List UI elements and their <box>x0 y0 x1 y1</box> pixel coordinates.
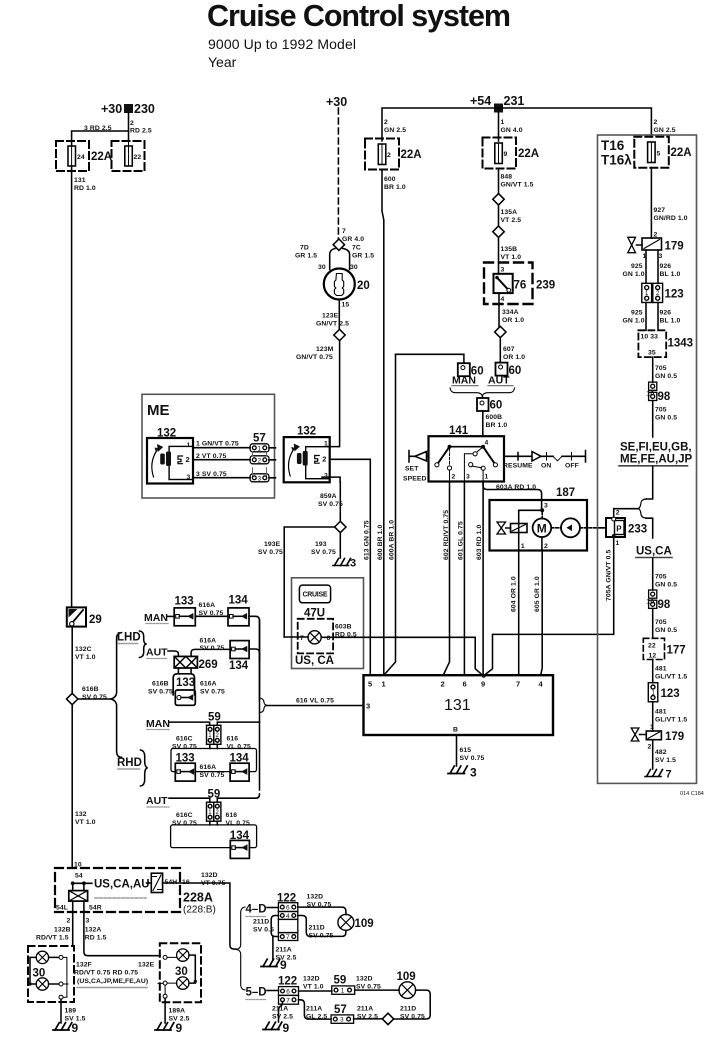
svg-text:6: 6 <box>286 905 290 912</box>
svg-text:1: 1 <box>501 119 505 126</box>
brake switch 29 <box>67 607 86 626</box>
svg-text:15: 15 <box>342 302 350 309</box>
svg-text:132D: 132D <box>356 976 373 983</box>
wire 123M GN/VT 0.75 down to pedal switch 132 pin1 <box>328 341 340 447</box>
lamp wires <box>284 637 483 676</box>
svg-text:9: 9 <box>72 1021 79 1035</box>
LHD MAN row <box>144 612 168 624</box>
ignition switch 20 <box>324 269 355 300</box>
svg-text:600 BR 1.0: 600 BR 1.0 <box>377 524 384 560</box>
T16 / T16-lambda ECU outline box <box>598 135 697 783</box>
connector 57 (5-D) <box>334 1004 347 1016</box>
wire 57 to 122 pin7 <box>299 1000 332 1019</box>
svg-text:6: 6 <box>463 680 467 689</box>
svg-text:MAN: MAN <box>144 612 168 624</box>
node +30 (ignition feed) <box>326 95 347 109</box>
svg-text:211A: 211A <box>276 947 292 954</box>
svg-text:211A: 211A <box>272 1006 288 1013</box>
svg-text:57: 57 <box>334 1004 347 1016</box>
svg-text:3: 3 <box>544 503 548 510</box>
wire 615 SV 0.75 to ground <box>456 735 458 766</box>
svg-text:616A: 616A <box>200 764 217 771</box>
market label US,CA <box>636 546 672 558</box>
svg-text:MAN: MAN <box>146 718 170 730</box>
svg-text:+30: +30 <box>101 102 122 116</box>
svg-text:7: 7 <box>516 680 520 689</box>
svg-text:B: B <box>453 727 458 734</box>
svg-text:230: 230 <box>134 102 155 116</box>
svg-text:2: 2 <box>654 119 658 126</box>
svg-text:123M: 123M <box>316 346 334 353</box>
svg-text:5: 5 <box>657 151 661 158</box>
relay 76 in dashed box 239 <box>484 263 533 305</box>
svg-text:1: 1 <box>187 442 191 449</box>
wire 132 pin3 to 859A <box>322 477 340 482</box>
svg-text:SV 0.75: SV 0.75 <box>400 1014 425 1021</box>
svg-text:133: 133 <box>175 596 194 608</box>
svg-text:12: 12 <box>649 653 657 660</box>
RHD MAN row <box>146 718 170 730</box>
svg-text:2: 2 <box>258 457 262 464</box>
clutch pedal switch 132 (ME) <box>157 428 176 440</box>
connector 60 (600B) <box>477 398 489 411</box>
collector wire to ECU pin 3 <box>259 620 261 790</box>
LHD/RHD distribution bracket <box>111 633 122 758</box>
wires 925/926 lower <box>646 303 658 331</box>
fuse 2 22A <box>365 139 399 170</box>
svg-text:134: 134 <box>229 660 249 672</box>
svg-text:LHD: LHD <box>117 632 141 644</box>
pump symbol <box>561 518 580 537</box>
svg-text:22: 22 <box>134 154 142 161</box>
svg-text:481: 481 <box>655 709 667 716</box>
diamond <box>493 226 504 237</box>
svg-text:GL 2.5: GL 2.5 <box>306 1014 327 1021</box>
svg-text:859A: 859A <box>320 493 337 500</box>
svg-text:US, CA: US, CA <box>295 655 334 667</box>
CRUISE indicator assembly outer box <box>292 578 364 669</box>
svg-text:SV 0.75: SV 0.75 <box>200 645 225 652</box>
svg-text:132A: 132A <box>85 927 102 934</box>
svg-text:SV 2.5: SV 2.5 <box>272 1014 293 1021</box>
svg-text:5: 5 <box>368 680 372 689</box>
svg-text:334A: 334A <box>502 309 519 316</box>
svg-text:54R: 54R <box>89 905 102 912</box>
svg-text:4–D: 4–D <box>246 904 267 916</box>
svg-text:705: 705 <box>655 365 667 372</box>
wires 604/605 to ECU <box>518 551 520 676</box>
svg-text:3: 3 <box>501 267 505 274</box>
svg-text:7C: 7C <box>352 245 361 252</box>
svg-text:600B: 600B <box>486 414 503 421</box>
diamond <box>495 326 506 337</box>
fuse 22 <box>112 141 145 171</box>
svg-text:131: 131 <box>74 177 86 184</box>
wire 616A <box>195 615 228 617</box>
svg-text:VT 2.5: VT 2.5 <box>501 217 522 224</box>
svg-text:35: 35 <box>648 350 656 357</box>
svg-text:1: 1 <box>521 543 525 550</box>
vacuum pump assembly 187 <box>556 487 575 499</box>
wires 7D / 7C into ignition switch <box>330 249 350 270</box>
ground 9 (5-D) <box>279 1002 283 1022</box>
svg-text:GN/VT 0.75: GN/VT 0.75 <box>296 354 333 361</box>
svg-text:228A: 228A <box>183 891 213 905</box>
wire 603 RD 1.0 <box>482 482 484 676</box>
svg-text:2: 2 <box>656 291 660 297</box>
lamp 109 (4-D) <box>338 914 354 930</box>
svg-text:RHD: RHD <box>117 757 142 769</box>
fuse 9 22A <box>483 138 517 169</box>
svg-text:132D: 132D <box>201 872 218 879</box>
svg-text:60: 60 <box>490 400 503 412</box>
svg-text:GN 1.0: GN 1.0 <box>623 318 645 325</box>
svg-text:927: 927 <box>654 207 666 214</box>
svg-text:133: 133 <box>176 677 195 689</box>
valve symbol of 179 <box>628 237 636 252</box>
LHD brace <box>140 631 147 658</box>
svg-text:RESUME: RESUME <box>503 463 533 470</box>
RHD AUT loop with 134 <box>210 821 218 825</box>
svg-text:4: 4 <box>286 913 290 920</box>
svg-text:1: 1 <box>208 810 212 816</box>
svg-text:193: 193 <box>315 541 327 548</box>
wire 193E SV 0.75 left and down to lamp 47U <box>284 527 334 637</box>
svg-text:1: 1 <box>208 733 212 739</box>
svg-text:2: 2 <box>441 680 445 689</box>
svg-text:705: 705 <box>655 574 667 581</box>
svg-text:132: 132 <box>75 811 87 818</box>
svg-text:603 RD 1.0: 603 RD 1.0 <box>476 524 483 560</box>
fuse 24 (22A) <box>56 141 89 171</box>
switch symbol in 228A <box>151 873 162 892</box>
svg-text:3: 3 <box>350 558 356 570</box>
connector 60 MAN <box>458 363 470 376</box>
connector 134 (LHD AUT) <box>230 641 249 659</box>
svg-text:VT 1.0: VT 1.0 <box>501 254 522 261</box>
svg-text:AUT: AUT <box>488 375 510 387</box>
wire 859A SV 0.75 to diamond <box>339 482 341 521</box>
svg-text:59: 59 <box>334 975 347 987</box>
svg-text:2: 2 <box>452 474 456 481</box>
svg-text:132D: 132D <box>307 894 324 901</box>
wire to 59 <box>299 990 332 992</box>
svg-text:GN 0.5: GN 0.5 <box>655 627 677 634</box>
svg-text:MAN: MAN <box>452 375 476 387</box>
svg-text:7: 7 <box>286 997 290 1004</box>
svg-text:233: 233 <box>628 524 647 536</box>
svg-text:616 VL 0.75: 616 VL 0.75 <box>296 698 334 705</box>
connector 133 (LHD MAN) <box>175 596 194 608</box>
svg-text:187: 187 <box>556 487 575 499</box>
svg-text:(228:B): (228:B) <box>183 905 216 916</box>
CRUISE badge <box>299 585 330 603</box>
svg-text:123: 123 <box>665 289 684 301</box>
svg-text:GN 4.0: GN 4.0 <box>501 127 523 134</box>
svg-text:3 SV 0.75: 3 SV 0.75 <box>196 471 227 478</box>
svg-text:SV 0.75: SV 0.75 <box>318 501 343 508</box>
svg-text:1: 1 <box>650 724 654 731</box>
svg-text:3 RD 2.5: 3 RD 2.5 <box>84 125 112 132</box>
svg-text:30: 30 <box>33 968 46 980</box>
svg-text:OR 1.0: OR 1.0 <box>503 354 525 361</box>
svg-text:22A: 22A <box>671 147 692 159</box>
svg-text:925: 925 <box>631 263 643 270</box>
connector 122 (5-D) <box>278 976 297 988</box>
svg-text:22A: 22A <box>91 151 112 163</box>
wire 600 BR 1.0 fuse2 to ECU pin1 <box>382 170 384 676</box>
connector 60 AUT <box>496 363 508 376</box>
svg-text:2: 2 <box>130 120 134 127</box>
solenoid valve inside 187 <box>519 510 543 550</box>
RHD AUT row <box>146 795 168 807</box>
svg-text:1: 1 <box>485 474 489 481</box>
svg-text:GN/RD 1.0: GN/RD 1.0 <box>654 215 688 222</box>
svg-text:VL 0.75: VL 0.75 <box>227 744 251 751</box>
motor M <box>533 519 552 538</box>
svg-text:616C: 616C <box>176 736 193 743</box>
wire 705 GN 0.5 <box>652 357 654 382</box>
wire 603A RD 1.0 from 141 pin1 to pump 187 <box>483 482 541 511</box>
141 internals <box>448 445 452 449</box>
svg-text:SPEED: SPEED <box>403 476 427 483</box>
wire 193 SV 0.75 to ground <box>339 533 341 558</box>
svg-text:GL/VT 1.5: GL/VT 1.5 <box>655 674 687 681</box>
svg-text:GN 0.5: GN 0.5 <box>655 582 677 589</box>
svg-text:603B: 603B <box>335 624 352 631</box>
svg-text:VT 1.0: VT 1.0 <box>303 984 324 991</box>
wire 132D VT 0.75 out of 228A <box>163 883 236 949</box>
wire 481 <box>652 660 654 683</box>
wire 601 GL 0.75 <box>463 482 465 676</box>
wires 925/926 <box>646 250 658 283</box>
svg-text:ME: ME <box>147 402 170 419</box>
svg-text:926: 926 <box>660 310 672 317</box>
svg-text:211D: 211D <box>253 919 269 926</box>
svg-text:616B: 616B <box>82 686 99 693</box>
svg-text:3: 3 <box>366 702 370 711</box>
svg-text:RD 2.5: RD 2.5 <box>130 128 152 135</box>
svg-text:848: 848 <box>501 174 513 181</box>
wires 132B/132A to clusters <box>73 901 160 956</box>
wires 132(ME) to 57 <box>193 448 250 478</box>
connector 134 (LHD MAN) <box>229 595 249 607</box>
svg-text:1 GN/VT 0.75: 1 GN/VT 0.75 <box>196 441 239 448</box>
svg-text:269: 269 <box>199 659 218 671</box>
wire 600A BR 1.0 from 60 MAN to ECU pin1 <box>384 354 395 675</box>
wire 482 SV 1.5 <box>652 740 654 769</box>
svg-text:BR 1.0: BR 1.0 <box>384 184 406 191</box>
svg-text:CRUISE: CRUISE <box>303 592 328 599</box>
svg-text:47U: 47U <box>304 608 325 620</box>
svg-text:BL 1.0: BL 1.0 <box>660 271 681 278</box>
svg-text:GR 1.5: GR 1.5 <box>352 253 374 260</box>
lamp cluster 30 right <box>160 943 201 1002</box>
svg-text:SE,FI,EU,GB,: SE,FI,EU,GB, <box>620 442 692 454</box>
svg-text:231: 231 <box>504 94 525 108</box>
svg-text:132: 132 <box>297 426 316 438</box>
svg-text:482: 482 <box>655 749 667 756</box>
splice 269 <box>174 656 197 668</box>
connector 133 below 269 <box>178 668 191 674</box>
connector 123 (single) <box>648 683 658 702</box>
svg-text:24: 24 <box>77 154 85 161</box>
svg-text:605 GR 1.0: 605 GR 1.0 <box>534 576 541 612</box>
svg-text:BL 1.0: BL 1.0 <box>660 318 681 325</box>
svg-text:2 VT 0.75: 2 VT 0.75 <box>196 453 226 460</box>
svg-text:179: 179 <box>665 731 684 743</box>
svg-text:602 RD/VT 0.75: 602 RD/VT 0.75 <box>443 510 450 560</box>
svg-text:3: 3 <box>258 475 262 482</box>
connector 59 (5-D) <box>334 975 347 987</box>
svg-text:7: 7 <box>300 635 304 642</box>
svg-text:AUT: AUT <box>146 647 168 659</box>
wire from 134 to collector <box>249 616 260 700</box>
svg-text:2: 2 <box>322 455 326 464</box>
svg-text:3: 3 <box>187 474 191 481</box>
svg-text:607: 607 <box>503 346 515 353</box>
market label SE,FI,EU,GB,ME,FE,AU,JP <box>620 442 693 466</box>
svg-text:616B: 616B <box>152 681 169 688</box>
svg-text:GN/VT 1.5: GN/VT 1.5 <box>501 182 534 189</box>
wire 211D SV 0.5 pin4-left loop to pin7 <box>271 916 278 937</box>
svg-text:22A: 22A <box>401 149 422 161</box>
svg-text:98: 98 <box>658 599 671 611</box>
svg-text:SV 0.75: SV 0.75 <box>148 689 173 696</box>
svg-text:9000 Up to 1992 Model: 9000 Up to 1992 Model <box>208 36 356 52</box>
diamond 211 <box>382 1013 393 1024</box>
svg-text:211A: 211A <box>306 1006 322 1013</box>
svg-text:VT 1.0: VT 1.0 <box>75 819 96 826</box>
svg-text:1343: 1343 <box>668 338 694 350</box>
svg-text:54: 54 <box>75 873 83 880</box>
svg-text:109: 109 <box>355 918 374 930</box>
svg-text:211A: 211A <box>357 1006 373 1013</box>
svg-text:BR 1.0: BR 1.0 <box>486 422 508 429</box>
svg-text:US,CA,AU: US,CA,AU <box>94 879 150 891</box>
svg-text:10: 10 <box>647 391 655 398</box>
svg-text:926: 926 <box>660 263 672 270</box>
svg-text:3: 3 <box>86 918 90 925</box>
node +54/231 bus <box>470 94 524 113</box>
wire 132 pin2 right to 613 <box>330 459 371 675</box>
svg-text:22: 22 <box>648 643 656 650</box>
svg-text:616A: 616A <box>199 602 216 609</box>
inter-cluster wire 132F/132E <box>63 982 163 985</box>
svg-text:ON: ON <box>541 463 551 470</box>
svg-text:GR 4.0: GR 4.0 <box>342 236 364 243</box>
svg-text:SV 1.5: SV 1.5 <box>655 757 676 764</box>
svg-text:2: 2 <box>186 455 190 464</box>
connector 59 (RHD MAN) <box>208 712 221 724</box>
svg-text:189A: 189A <box>169 1008 186 1015</box>
svg-text:603A RD 1.0: 603A RD 1.0 <box>496 484 536 491</box>
svg-text:GN/VT 2.5: GN/VT 2.5 <box>316 321 349 328</box>
svg-text:98: 98 <box>658 391 671 403</box>
svg-text:2: 2 <box>648 744 652 751</box>
cruise stalk switch 141 <box>449 425 469 437</box>
svg-text:VT 1.0: VT 1.0 <box>75 654 96 661</box>
svg-text:601 GL 0.75: 601 GL 0.75 <box>458 521 465 560</box>
svg-text:135A: 135A <box>501 209 518 216</box>
lamp cluster splice box <box>73 883 84 890</box>
svg-text:9: 9 <box>481 680 485 689</box>
4-D / 5-D distribution brace <box>236 907 245 990</box>
svg-text:177: 177 <box>667 645 686 657</box>
svg-text:134: 134 <box>229 595 249 607</box>
plate code 014 C184 <box>680 791 704 797</box>
connector 122 (4-D) <box>277 893 296 905</box>
control unit 1343 dashed box <box>638 330 666 357</box>
bus wire <box>382 108 651 141</box>
time relay 177 <box>643 638 664 659</box>
svg-text:179: 179 <box>665 241 684 253</box>
svg-text:P: P <box>616 525 622 534</box>
SET SPEED indicator line <box>409 451 429 463</box>
svg-text:132B: 132B <box>54 927 71 934</box>
svg-text:1: 1 <box>341 988 345 995</box>
svg-text:30: 30 <box>175 966 188 978</box>
svg-text:OR 1.0: OR 1.0 <box>502 317 524 324</box>
wire lamp to pin4 211D SV 0.75 <box>298 916 346 937</box>
svg-text:GN 2.5: GN 2.5 <box>654 127 676 134</box>
svg-text:132C: 132C <box>75 646 92 653</box>
title <box>207 0 511 70</box>
svg-text:60: 60 <box>509 365 522 377</box>
svg-text:9: 9 <box>176 1021 183 1035</box>
wire from 230 down to fuse 22 <box>128 113 130 141</box>
svg-text:7D: 7D <box>300 245 309 252</box>
svg-text:615: 615 <box>460 747 472 754</box>
svg-text:3: 3 <box>324 473 328 480</box>
option brace <box>638 499 646 518</box>
svg-text:22A: 22A <box>518 148 539 160</box>
wire to lamp 109 (5-D) <box>355 989 399 991</box>
svg-text:613 GN 0.75: 613 GN 0.75 <box>363 520 370 560</box>
svg-text:SET: SET <box>405 466 419 473</box>
svg-text:29: 29 <box>89 614 102 626</box>
svg-text:Cruise Control system: Cruise Control system <box>207 0 511 33</box>
wire 132C VT 1.0 <box>71 627 73 694</box>
solenoid valve 179 (top) <box>654 232 658 239</box>
svg-text:1: 1 <box>324 441 328 448</box>
svg-text:10 33: 10 33 <box>641 334 659 341</box>
svg-text:7: 7 <box>666 769 672 781</box>
svg-text:616: 616 <box>226 812 238 819</box>
svg-text:1: 1 <box>645 291 649 297</box>
brace under MAN/AUT <box>450 388 514 397</box>
svg-text:132D: 132D <box>303 976 320 983</box>
fuse 5 22A (T16) <box>634 137 669 168</box>
svg-text:10: 10 <box>647 599 655 606</box>
svg-text:SV 0.75: SV 0.75 <box>199 610 224 617</box>
wire 481 lower <box>652 702 654 731</box>
clutch pedal switch 132 (non-ME) <box>297 426 316 438</box>
svg-text:1: 1 <box>616 540 620 547</box>
wire branch 3 RD 2.5 to fuse 24 <box>72 131 129 141</box>
svg-text:705A GN/VT 0.5: 705A GN/VT 0.5 <box>606 549 613 601</box>
svg-text:30: 30 <box>318 264 326 271</box>
ground 3 <box>333 559 351 566</box>
svg-text:122: 122 <box>278 976 297 988</box>
pressure switch 233 <box>606 518 625 537</box>
wire 233 pin2 up to country brace <box>614 509 638 517</box>
svg-text:M: M <box>537 521 547 535</box>
svg-text:132F: 132F <box>76 962 92 969</box>
RHD brace <box>141 750 148 786</box>
svg-text:SV 0.5: SV 0.5 <box>253 927 274 934</box>
svg-text:2: 2 <box>384 119 388 126</box>
